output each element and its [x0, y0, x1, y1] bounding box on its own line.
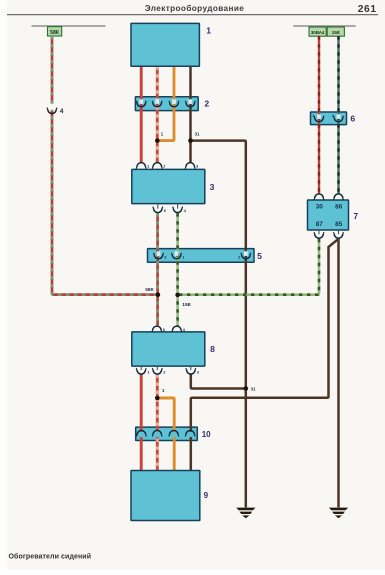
- svg-text:15Е: 15Е: [182, 302, 191, 308]
- block8 bottom pins 1,2,3: [140, 366, 142, 370]
- wire orange: junction -> block10 pin3 -> block9: [157, 398, 174, 471]
- svg-text:Обогреватели сидений: Обогреватели сидений: [9, 553, 92, 561]
- fuse label 30BA4: [309, 27, 326, 36]
- wire red/white: block8 pin2 -> block9: [156, 375, 159, 471]
- svg-text:15Е: 15Е: [332, 30, 340, 35]
- block 8: rear seat heater control: [132, 332, 205, 366]
- wire brown branch: junction 31 -> down to ground G1: [191, 141, 246, 508]
- junction dot 31 lower: [244, 386, 249, 391]
- svg-text:3: 3: [210, 182, 215, 192]
- fuse label 15E: [327, 27, 344, 36]
- svg-text:4: 4: [60, 108, 64, 115]
- block5 pin arc 3: [157, 251, 161, 256]
- svg-text:261: 261: [358, 4, 377, 15]
- block 3: front seat heater control: [132, 169, 205, 203]
- junction dot 58K: [156, 292, 161, 297]
- junction dot 15E: [175, 293, 180, 298]
- junction dot red/white+orange lower: [155, 396, 160, 401]
- ground G2: [329, 508, 348, 511]
- connector strip X6 (block 6): [311, 112, 347, 125]
- wire teal/black 15E: fuse -> relay pin86: [337, 36, 339, 194]
- inline connector 4 on 58K wire: [50, 104, 55, 110]
- block3 top pins 1,2,3: [137, 163, 146, 167]
- block3 bottom pins 6,4: [157, 204, 159, 209]
- wire brown: block1 -> block3 pin3: [189, 66, 192, 163]
- wire orange: block1 -> junction with red/white: [159, 66, 175, 140]
- svg-text:31: 31: [251, 386, 256, 391]
- wire green 15E: relay pin87 -> junction 15E: [178, 239, 319, 295]
- wire red/green: block3 pin6 -> block8 pin6: [156, 213, 159, 326]
- svg-text:85: 85: [335, 221, 343, 228]
- wire red: block1 pin -> block3 pin1: [140, 66, 143, 163]
- connector strip X5 (block 5): [148, 249, 255, 263]
- wire brown: relay pin85 -> block10 pin4 -> block9: [191, 239, 339, 471]
- block 9: seat heater element: [131, 471, 200, 521]
- junction dot red/white+orange upper: [155, 138, 160, 143]
- connector strip X2 (block 2): [135, 97, 198, 111]
- svg-text:10: 10: [202, 430, 211, 439]
- svg-text:30ВА4: 30ВА4: [311, 30, 325, 35]
- block8 top pins 6,4: [153, 326, 162, 330]
- block2 pin arcs: [139, 99, 143, 104]
- connector strip X10 (block 10): [136, 427, 198, 440]
- relay top pins: [315, 194, 324, 198]
- wire green 15E: block3 pin4 -> block8 pin4: [176, 213, 179, 326]
- svg-text:6: 6: [350, 114, 355, 124]
- left supply bus bar: [32, 25, 106, 27]
- svg-text:58К: 58К: [145, 287, 153, 293]
- svg-text:87: 87: [316, 221, 324, 228]
- block6 pin arcs: [317, 114, 321, 119]
- svg-text:86: 86: [335, 204, 343, 211]
- right supply bus bar: [293, 25, 355, 27]
- svg-text:7: 7: [353, 211, 358, 221]
- relay block 7: [308, 200, 349, 230]
- junction dot brown 31 upper: [188, 138, 193, 143]
- svg-text:3: 3: [332, 114, 334, 118]
- svg-text:5: 5: [257, 251, 262, 261]
- svg-text:1: 1: [312, 114, 314, 118]
- wire red/green 58K: fuse -> junction: [52, 36, 158, 295]
- block10 pin arcs: [140, 432, 144, 437]
- svg-text:31: 31: [195, 131, 200, 136]
- wire red: block8 pin1 -> block9: [140, 375, 143, 471]
- block5 pin arc 1: [175, 251, 179, 256]
- svg-text:8: 8: [210, 344, 215, 354]
- svg-text:58К: 58К: [50, 30, 60, 36]
- relay bottom pins: [319, 230, 339, 234]
- wire red/dark 30BA4: fuse -> relay pin30: [318, 36, 320, 194]
- wire brown: relay pin85 -> ground G2: [337, 239, 340, 508]
- svg-text:1: 1: [206, 25, 211, 35]
- svg-text:2: 2: [204, 99, 209, 109]
- fuse label 58K: [48, 27, 62, 36]
- wire brown: block8 pin3 -> junction 31 lower: [191, 375, 246, 389]
- ground G1: [236, 508, 255, 511]
- svg-text:Электрооборудование: Электрооборудование: [145, 3, 245, 13]
- block 1: heater switch unit: [131, 23, 199, 66]
- block5 pin arc 2: [244, 251, 248, 256]
- header rule: [7, 14, 378, 16]
- svg-text:9: 9: [204, 491, 209, 500]
- wire red/white: block1 -> junction -> block3 pin2: [156, 66, 159, 163]
- svg-text:30: 30: [316, 204, 324, 211]
